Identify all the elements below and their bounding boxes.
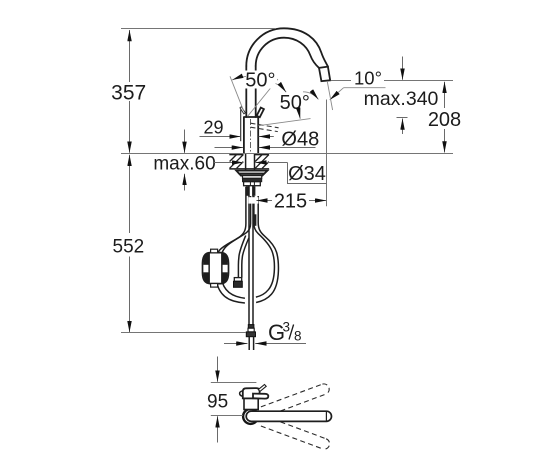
max.60 vertical lower arrow xyxy=(184,174,186,191)
svg-text:3: 3 xyxy=(283,320,291,335)
middle hose connector xyxy=(234,278,243,288)
bottom view handle ear xyxy=(240,391,243,397)
dimension 357 line xyxy=(129,30,131,153)
spout tube xyxy=(246,66,255,117)
svg-text:Ø34: Ø34 xyxy=(288,163,326,185)
lever left edge line xyxy=(240,110,242,142)
svg-text:8: 8 xyxy=(294,329,302,344)
hose end connector xyxy=(246,325,255,337)
bottom view body xyxy=(244,398,258,409)
dashed arm up xyxy=(261,384,329,417)
body width lower-left arrow xyxy=(215,147,244,149)
washer xyxy=(239,174,264,176)
dimension 95 line xyxy=(217,357,219,443)
G 3/8 hose width right arrow xyxy=(255,343,306,345)
spout gooseneck outer arc xyxy=(246,28,328,66)
hose loop inner left xyxy=(221,196,251,298)
shank through deck xyxy=(246,153,255,170)
bottom view handle dome xyxy=(243,388,260,398)
max.60 leader arrow xyxy=(214,162,243,164)
svg-text:50°: 50° xyxy=(245,69,275,91)
G 3/8 hose width left arrow xyxy=(224,343,248,345)
body centerline xyxy=(250,119,252,152)
spout tip vertical extension line xyxy=(326,100,328,207)
bottom view lever bar xyxy=(253,394,268,399)
50 degree (swivel) ray xyxy=(259,119,311,126)
bottom view lever top tab xyxy=(258,385,266,392)
max.340 lower arrow with tick xyxy=(397,118,408,135)
svg-text:50°: 50° xyxy=(280,92,310,114)
bottom view folded arm xyxy=(246,411,331,421)
lever right position xyxy=(257,108,264,118)
svg-text:max.60: max.60 xyxy=(153,153,215,174)
hose loop outer right xyxy=(256,196,278,303)
50 degree (swivel) arc arrow xyxy=(303,92,318,100)
svg-text:208: 208 xyxy=(428,109,461,131)
top extension line xyxy=(121,28,276,30)
hose loop outer left xyxy=(215,187,246,303)
diameter 34 leader arrow xyxy=(255,162,287,164)
dimension 208 line xyxy=(444,82,446,153)
50 degree (lever) text knockout xyxy=(244,71,277,89)
bottom view: 95 top extension line xyxy=(211,382,257,384)
max.340 upper arrow xyxy=(402,57,404,80)
max.60 vertical upper arrow xyxy=(184,130,186,153)
bottom extension line (hose end level) xyxy=(121,332,246,334)
dashed arm down xyxy=(261,416,330,449)
deck slab left xyxy=(229,155,243,169)
check valve block xyxy=(203,249,229,287)
svg-text:max.340: max.340 xyxy=(364,88,439,110)
svg-text:10°: 10° xyxy=(354,67,382,88)
diameter 48 underline arrow xyxy=(259,147,316,149)
svg-text:552: 552 xyxy=(113,236,145,257)
svg-text:357: 357 xyxy=(111,82,146,105)
spout gooseneck inner arc xyxy=(256,38,319,68)
deck slab right xyxy=(255,155,269,169)
50 degree (lever) right ray xyxy=(248,79,278,116)
bottom view: 95 bottom extension line xyxy=(211,415,243,417)
10 degree leader xyxy=(330,88,386,100)
hose loop inner right xyxy=(254,196,275,297)
nut lower band xyxy=(244,182,261,186)
spray head xyxy=(319,67,330,82)
dimension 552 line xyxy=(129,155,131,332)
bottom view pivot ring xyxy=(243,409,258,424)
hose fittings below shank xyxy=(246,186,256,196)
hose tail xyxy=(249,337,253,350)
middle hose xyxy=(238,236,248,278)
50 degree (lever) left ray xyxy=(230,76,244,111)
escutcheon flange xyxy=(236,171,267,174)
diameter 34 callout box xyxy=(288,163,327,184)
G 3/8 label xyxy=(268,320,302,346)
svg-text:215: 215 xyxy=(274,191,307,213)
pull-out hose xyxy=(249,186,253,325)
deck bottom line xyxy=(229,168,269,170)
spout outlet level line xyxy=(331,80,453,82)
svg-text:29: 29 xyxy=(203,118,223,138)
50 degree (lever) right arc arrow xyxy=(276,84,287,93)
body width upper-right arrow xyxy=(259,136,274,138)
lever left outline xyxy=(240,107,245,114)
dimension 29 leader arrow xyxy=(200,136,241,138)
50 degree (swivel) lower arrow xyxy=(298,112,300,119)
dimension 215 left arrow xyxy=(248,197,258,203)
mounting nut thread (dark) xyxy=(243,178,262,181)
right hose fitting xyxy=(254,214,257,226)
50 degree (lever) left arc arrow xyxy=(232,76,246,80)
dimension 215 right arrow xyxy=(309,200,326,202)
svg-text:95: 95 xyxy=(207,391,228,412)
deck line xyxy=(121,153,453,155)
lever dashed open position xyxy=(251,123,279,131)
spout axis line xyxy=(327,81,332,110)
mounting nut top xyxy=(243,176,262,179)
faucet body xyxy=(244,117,258,153)
